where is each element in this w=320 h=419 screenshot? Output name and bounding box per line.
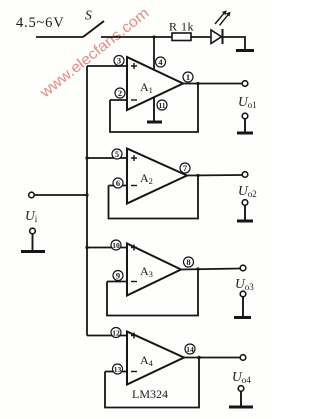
- wire A1 pin11 to ground: [153, 97, 155, 121]
- ground terminal (Uo3): [240, 291, 246, 316]
- pin 8: [184, 257, 194, 267]
- op-amp A2: [127, 149, 187, 204]
- wire A1 -input: [110, 99, 127, 101]
- wire A3 -input: [107, 281, 127, 283]
- watermark www.elecfans.com: [36, 4, 152, 101]
- svg-text:11: 11: [158, 101, 165, 110]
- svg-text:8: 8: [186, 257, 190, 267]
- node bus-Ui junction: [85, 193, 88, 196]
- switch S: [83, 8, 104, 38]
- wire input bus vertical: [86, 66, 88, 336]
- pin 12: [111, 328, 121, 338]
- wire supply rail left segment: [36, 36, 83, 38]
- ground (Uo1): [237, 132, 253, 135]
- node bus-A2 junction: [85, 156, 88, 159]
- ground terminal (Uo2): [242, 200, 248, 220]
- wire supply rail right segment: [101, 36, 172, 38]
- op-amp A1: [127, 57, 183, 110]
- terminal Uo4: [232, 355, 251, 385]
- ground (LED): [236, 49, 254, 52]
- node A4 output junction: [197, 356, 201, 360]
- op-amp A4: [127, 332, 184, 385]
- wire A3 +input: [87, 247, 127, 249]
- svg-text:12: 12: [112, 329, 120, 338]
- ground (Uo3): [234, 316, 251, 319]
- svg-text:6: 6: [116, 178, 120, 188]
- wire A3 output: [181, 269, 240, 270]
- svg-text:5: 5: [115, 149, 119, 159]
- pin 2: [115, 88, 125, 98]
- node bus-A3 junction: [85, 246, 88, 249]
- wire resistor to LED: [191, 36, 211, 38]
- wire A2 -input: [109, 185, 128, 187]
- node A3 output junction: [196, 267, 199, 270]
- pin 6: [113, 178, 123, 188]
- pin 9: [113, 271, 123, 281]
- ground (Uo2): [237, 220, 253, 223]
- svg-text:10: 10: [112, 241, 120, 250]
- node supply junction to A1 pin4: [152, 35, 155, 38]
- svg-text:3: 3: [117, 56, 121, 66]
- pin 4: [156, 57, 166, 67]
- wire A4 +input: [87, 335, 127, 337]
- ground (input): [21, 250, 45, 253]
- pin 10: [111, 240, 121, 250]
- wire A4 -input: [105, 371, 127, 373]
- wire A1 +input: [87, 65, 127, 67]
- terminal Uo2: [238, 172, 257, 199]
- wire V+ drop to A1 pin 4: [153, 37, 155, 69]
- wire A2 feedback loop: [109, 176, 199, 219]
- svg-text:9: 9: [116, 271, 120, 281]
- op-amp A3: [127, 244, 181, 296]
- ground terminal (Uo4): [238, 386, 244, 406]
- ground terminal (Uo1): [242, 113, 248, 131]
- svg-text:2: 2: [118, 88, 122, 98]
- pin 1: [183, 72, 193, 82]
- svg-text:LM324: LM324: [132, 387, 168, 401]
- input terminal Ui: [25, 192, 38, 224]
- wire A4 feedback loop: [105, 358, 199, 408]
- LED D1: [211, 10, 231, 44]
- wire A3 feedback loop: [107, 269, 198, 316]
- svg-text:14: 14: [186, 345, 194, 354]
- pin 7: [180, 163, 190, 173]
- pin 13: [113, 364, 123, 374]
- node A1 output junction: [196, 82, 199, 85]
- wire Ui to bus: [35, 194, 88, 196]
- node A2 output junction: [196, 174, 199, 177]
- wire A1 output: [183, 83, 242, 85]
- svg-text:S: S: [85, 8, 92, 23]
- ground (A1 pin11): [147, 121, 162, 124]
- ground (Uo4): [229, 406, 253, 409]
- terminal Uo3: [235, 265, 254, 292]
- pin 5: [112, 149, 122, 159]
- svg-text:1: 1: [186, 72, 190, 82]
- pin 3: [114, 56, 124, 66]
- wire LED cathode to ground: [223, 37, 246, 50]
- wire A2 output: [187, 174, 242, 177]
- resistor R 1k: [169, 20, 194, 41]
- input ground terminal: [30, 228, 36, 250]
- pin 14: [185, 344, 195, 354]
- wire A2 +input: [87, 157, 127, 159]
- svg-text:R 1k: R 1k: [169, 20, 194, 34]
- svg-text:13: 13: [114, 365, 122, 374]
- svg-text:4.5~6V: 4.5~6V: [16, 15, 65, 31]
- terminal Uo1: [238, 81, 257, 110]
- pin 11: [157, 100, 167, 110]
- wire A1 feedback loop: [110, 84, 198, 133]
- wire A4 output: [184, 357, 240, 359]
